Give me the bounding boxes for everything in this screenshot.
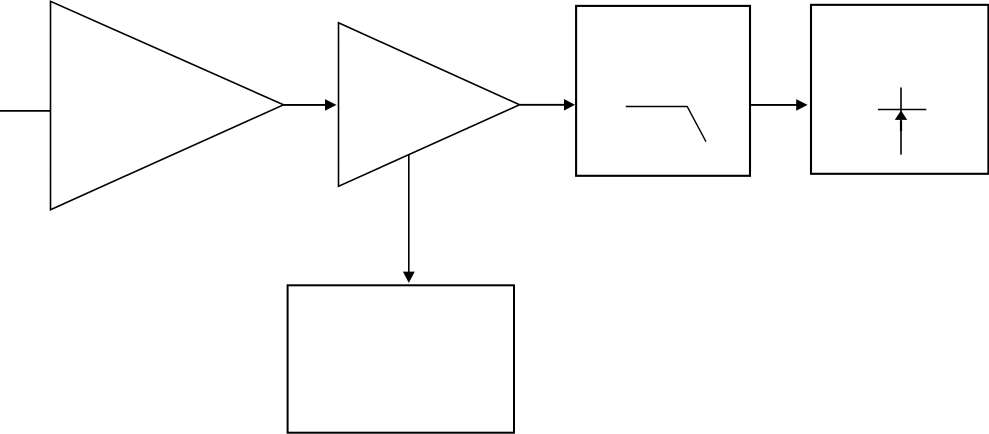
filter response symbol bbox=[626, 107, 706, 142]
sampler up-arrow shaft bbox=[900, 121, 902, 132]
sampler horizontal line bbox=[878, 109, 926, 111]
input wire bbox=[0, 110, 51, 112]
amplifier A2 bbox=[339, 23, 520, 187]
sampler block bbox=[811, 5, 988, 174]
arrowhead into A2 bbox=[325, 99, 337, 111]
sampler up-arrowhead bbox=[895, 110, 907, 120]
wire filter to sampler bbox=[750, 104, 797, 106]
low-pass filter block bbox=[576, 6, 750, 176]
wire A2 to filter bbox=[520, 104, 566, 106]
control box bbox=[288, 285, 514, 432]
amplifier A1 bbox=[51, 1, 284, 209]
arrowhead toward sampler bbox=[796, 99, 807, 111]
wire A1 to A2 bbox=[284, 104, 327, 106]
sampler vertical signal line bbox=[900, 88, 902, 155]
wire A2 down to control box bbox=[408, 155, 410, 273]
arrowhead into filter bbox=[564, 99, 575, 111]
arrowhead into control box bbox=[403, 272, 415, 283]
